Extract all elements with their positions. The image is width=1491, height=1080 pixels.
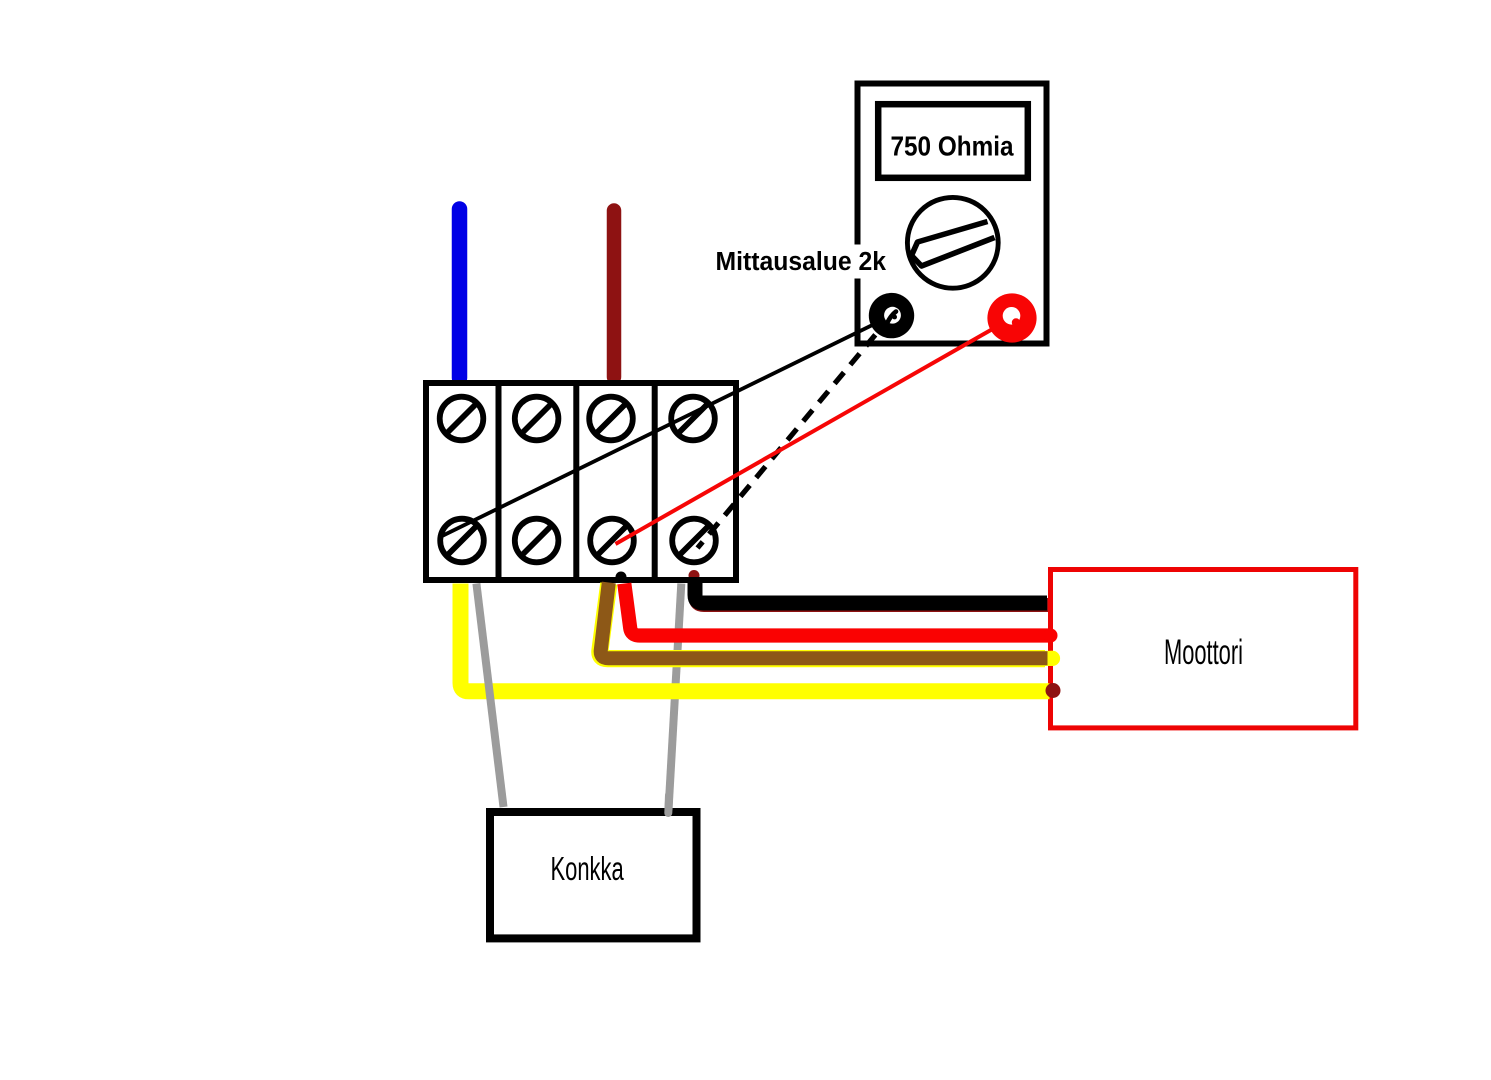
test lead black dashed (COM jack to terminal 4 bottom) xyxy=(698,316,892,548)
terminal block divider 3 xyxy=(652,383,658,580)
brown motor wire (terminal 3 to motor) xyxy=(601,583,1048,659)
multimeter display frame xyxy=(878,104,1028,178)
terminal block X1 outline xyxy=(426,383,736,580)
screw terminal 4 top xyxy=(671,397,715,441)
gray wire left (terminal 1 to Konkka) xyxy=(476,584,503,808)
screw terminal 2 bottom xyxy=(515,519,559,563)
COM jack (black) xyxy=(869,293,914,338)
V-Ohm jack (red) xyxy=(987,293,1036,342)
label Mittausalue 2k (white patch hides meter border) xyxy=(700,245,886,279)
svg-text:Moottori: Moottori xyxy=(1164,634,1243,672)
screw terminal 3 bottom xyxy=(590,519,634,563)
multimeter U1 body xyxy=(858,84,1047,344)
dark red end dot of yellow wire at motor xyxy=(1046,683,1061,698)
capacitor box (Konkka) xyxy=(490,812,697,938)
yellow under-wire of brown motor wire xyxy=(600,584,1045,659)
screw terminal 1 bottom xyxy=(440,519,484,563)
screw terminal 4 bottom xyxy=(672,519,716,563)
screw terminal 1 top xyxy=(440,397,484,441)
black junction dot at terminal 3 bottom xyxy=(616,572,627,583)
wire blue (supply) into terminal 1 xyxy=(452,209,468,378)
red motor wire (terminal 3 to motor) xyxy=(624,584,1050,636)
dark red under-wire of black motor wire xyxy=(696,577,1049,605)
svg-text:750 Ohmia: 750 Ohmia xyxy=(891,131,1015,162)
test lead red (V jack to terminal 3 bottom) xyxy=(616,319,1012,545)
wire dark-red (supply) into terminal 3 xyxy=(607,211,622,378)
red wire round end cap xyxy=(1044,629,1058,643)
terminal block divider 1 xyxy=(496,383,502,580)
yellow motor wire (terminal 1 to motor) xyxy=(461,584,1050,692)
gray wire right (terminal 4 to Konkka) xyxy=(669,584,682,811)
svg-text:Mittausalue 2k: Mittausalue 2k xyxy=(716,248,887,276)
rotary dial knob xyxy=(907,197,998,288)
terminal block divider 2 xyxy=(573,383,579,580)
test lead black solid (COM jack to terminal 1 bottom) xyxy=(442,316,892,536)
svg-text:Konkka: Konkka xyxy=(551,851,625,888)
motor box (Moottori) xyxy=(1051,570,1356,728)
screw terminal 2 top xyxy=(515,397,559,441)
black motor wire (terminal 4 to motor) xyxy=(695,577,1047,603)
dark red stub dot at terminal 4 bottom xyxy=(689,570,700,581)
yellow end cap at motor xyxy=(1045,651,1060,666)
rotary dial pointer xyxy=(912,222,995,267)
screw terminal 3 top xyxy=(589,397,633,441)
